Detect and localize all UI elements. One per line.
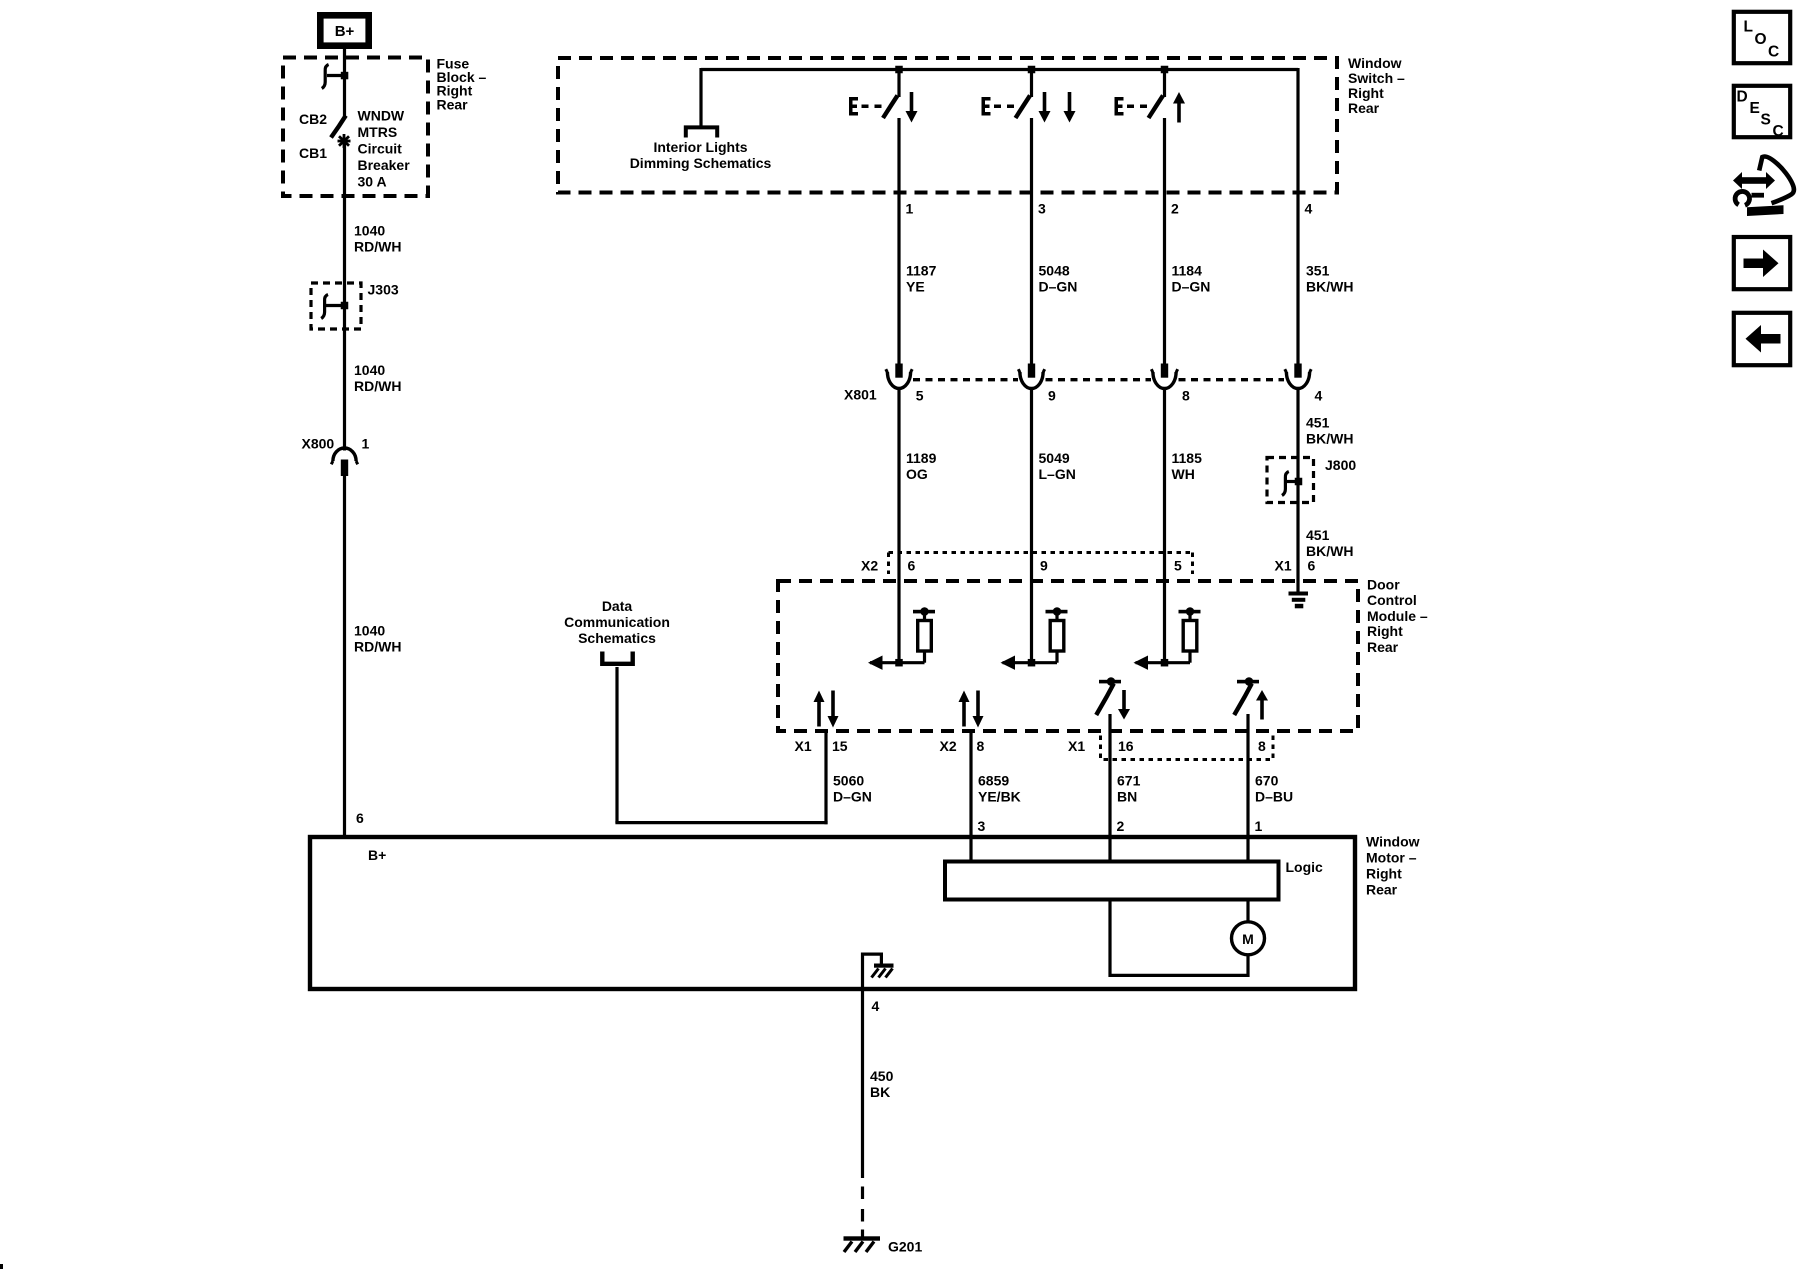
wire module switch 16 down [1108, 714, 1111, 862]
svg-text:J800: J800 [1325, 457, 1356, 473]
wire X801-8 to module [1163, 389, 1166, 665]
svg-text:5049: 5049 [1039, 450, 1070, 466]
door control module dashed box [778, 581, 1358, 731]
svg-text:X1: X1 [1068, 738, 1085, 754]
B+ power symbol [320, 15, 368, 45]
wire label 5049 L-GN [1039, 450, 1076, 482]
svg-text:Breaker: Breaker [358, 157, 411, 173]
svg-text:6859: 6859 [978, 773, 1009, 789]
connector X801 pin 8 [1151, 364, 1190, 404]
svg-text:1184: 1184 [1172, 263, 1203, 279]
motor pin labels 3 2 1 [978, 818, 1263, 834]
svg-text:Right: Right [1366, 865, 1402, 881]
svg-text:D–GN: D–GN [1172, 279, 1211, 295]
svg-text:X1: X1 [795, 738, 812, 754]
svg-text:8: 8 [977, 738, 985, 754]
splice J303 [311, 282, 399, 329]
svg-text:WNDW: WNDW [358, 107, 405, 123]
wire label 450 BK [870, 1068, 894, 1100]
svg-text:S: S [1761, 112, 1771, 129]
ground G201 [844, 1236, 923, 1254]
wire label 6859 YE/BK [978, 773, 1021, 805]
module switch down (X1-16) [1096, 677, 1130, 719]
wire label 1187 YE [906, 263, 937, 295]
window switch label [1348, 55, 1405, 116]
wire X801-5 to module [897, 389, 900, 665]
svg-text:450: 450 [870, 1068, 894, 1084]
svg-text:X801: X801 [844, 387, 877, 403]
svg-text:D–GN: D–GN [833, 789, 872, 805]
svg-text:J303: J303 [368, 282, 399, 298]
wire label 671 BN [1117, 773, 1141, 805]
svg-text:1040: 1040 [354, 622, 385, 638]
fuse block label [437, 55, 487, 112]
wire label 1040 RD/WH (1) [354, 222, 401, 254]
wire X801-4 to ground [1296, 389, 1299, 593]
wire switch pin 2 down [1163, 118, 1166, 364]
connector X800 pin 1 [302, 435, 370, 476]
svg-text:BK/WH: BK/WH [1306, 279, 1353, 295]
wire X801-9 to module [1030, 389, 1033, 665]
clamp junction in fuse block [322, 65, 348, 89]
svg-text:3: 3 [978, 818, 986, 834]
switch window up (pin 2) [1115, 70, 1186, 123]
interior lights off-page bracket [686, 127, 717, 137]
svg-text:Window: Window [1348, 55, 1402, 71]
svg-text:6: 6 [356, 810, 364, 826]
svg-text:451: 451 [1306, 414, 1330, 430]
svg-text:YE/BK: YE/BK [978, 789, 1021, 805]
svg-text:BK: BK [870, 1084, 890, 1100]
svg-text:8: 8 [1258, 738, 1266, 754]
wire X2-8 down to motor pin 3 [969, 732, 972, 863]
fuse block dashed box [283, 58, 428, 197]
svg-text:Circuit: Circuit [358, 140, 403, 156]
node bus junction 1 [895, 66, 903, 74]
svg-text:B+: B+ [335, 23, 355, 40]
wire label 351 BK/WH [1306, 263, 1353, 295]
svg-text:671: 671 [1117, 773, 1141, 789]
svg-text:6: 6 [908, 557, 916, 573]
page corner mark [0, 1264, 3, 1269]
icon schematic tools [1733, 156, 1794, 216]
svg-text:Rear: Rear [437, 96, 469, 112]
svg-text:Window: Window [1366, 833, 1420, 849]
wire label 451 BK/WH upper [1306, 414, 1353, 446]
svg-text:9: 9 [1048, 387, 1056, 403]
pin numbers under switch box [906, 200, 1313, 216]
svg-text:RD/WH: RD/WH [354, 238, 401, 254]
svg-text:Rear: Rear [1348, 100, 1380, 116]
connector X2 labels [861, 557, 1182, 573]
wire logic to motor top [1246, 900, 1249, 922]
module pin labels [795, 738, 1267, 754]
wire drop to interior lights [699, 68, 702, 126]
wire motor ground down [861, 989, 864, 1178]
svg-text:Schematics: Schematics [578, 630, 656, 646]
svg-text:8: 8 [1182, 387, 1190, 403]
connector X801 dashed line [913, 378, 1284, 381]
module switch up (X1-8) [1234, 677, 1268, 719]
connector X801 pin 5 [886, 364, 924, 404]
wire label 1040 RD/WH (3) [354, 622, 401, 654]
switch window express down (pin 3) [982, 70, 1076, 123]
svg-text:Motor –: Motor – [1366, 849, 1417, 865]
svg-text:1: 1 [1255, 818, 1263, 834]
wire label 670 D-BU [1255, 773, 1293, 805]
svg-text:Module –: Module – [1367, 608, 1428, 624]
svg-text:O: O [1755, 31, 1767, 48]
node bus junction 3 [1161, 66, 1169, 74]
svg-text:9: 9 [1040, 557, 1048, 573]
motor M [1232, 922, 1265, 955]
svg-text:2: 2 [1117, 818, 1125, 834]
bus wire in switch [701, 68, 1298, 71]
wire switch pin 4 down [1296, 68, 1299, 364]
svg-text:D–GN: D–GN [1039, 279, 1078, 295]
svg-text:B+: B+ [368, 847, 386, 863]
svg-text:1189: 1189 [906, 450, 937, 466]
wire to data communication [615, 667, 827, 823]
svg-text:YE: YE [906, 279, 925, 295]
svg-text:L: L [1744, 18, 1753, 35]
svg-text:D: D [1737, 89, 1748, 106]
svg-text:1185: 1185 [1172, 450, 1203, 466]
svg-text:2: 2 [1171, 200, 1179, 216]
svg-text:X1: X1 [1275, 557, 1292, 573]
resistor R3 (module input 5) [1134, 607, 1201, 670]
svg-text:Door: Door [1367, 576, 1400, 592]
svg-text:5048: 5048 [1039, 263, 1070, 279]
interior lights label [630, 139, 772, 171]
wire switch pin 1 down [897, 118, 900, 364]
svg-text:Dimming Schematics: Dimming Schematics [630, 155, 772, 171]
svg-text:Communication: Communication [564, 614, 670, 630]
svg-text:Right: Right [1348, 85, 1384, 101]
svg-text:1: 1 [906, 200, 914, 216]
wire label 1040 RD/WH (2) [354, 362, 401, 394]
connector X1 dotted box (pins 16/8) [1101, 736, 1274, 760]
ground in module [1289, 592, 1309, 609]
svg-text:1187: 1187 [906, 263, 937, 279]
wire B+ to circuit breaker [343, 49, 346, 117]
window motor box [310, 837, 1355, 989]
svg-text:5: 5 [1174, 557, 1182, 573]
splice J800 [1267, 457, 1356, 503]
svg-text:4: 4 [872, 998, 880, 1014]
connector X1 pin 6 labels [1275, 557, 1316, 573]
svg-text:Interior Lights: Interior Lights [653, 139, 747, 155]
resistor R1 (module input 6) [868, 607, 935, 670]
dashed wire to G201 [861, 1187, 864, 1238]
svg-text:X2: X2 [940, 738, 957, 754]
svg-text:30 A: 30 A [358, 173, 387, 189]
svg-text:MTRS: MTRS [358, 124, 398, 140]
switch window down (pin 1) [849, 70, 918, 123]
svg-text:G201: G201 [888, 1239, 922, 1255]
svg-text:Data: Data [602, 598, 633, 614]
wire X1-15 down [824, 732, 827, 825]
wire logic to motor loop left [1110, 900, 1248, 978]
svg-text:1040: 1040 [354, 222, 385, 238]
window motor label [1366, 833, 1420, 897]
svg-text:C: C [1773, 123, 1784, 140]
wire circuit breaker to X800 [343, 141, 346, 451]
svg-text:1040: 1040 [354, 362, 385, 378]
svg-text:RD/WH: RD/WH [354, 638, 401, 654]
svg-text:OG: OG [906, 466, 928, 482]
wire X800 to window motor [343, 476, 346, 839]
svg-text:C: C [1768, 43, 1779, 60]
svg-text:Logic: Logic [1286, 859, 1324, 875]
data communication off-page bracket [602, 652, 632, 664]
svg-text:6: 6 [1308, 557, 1316, 573]
icon DESC [1734, 86, 1790, 140]
svg-text:RD/WH: RD/WH [354, 378, 401, 394]
svg-text:CB1: CB1 [299, 145, 327, 161]
svg-text:M: M [1242, 931, 1254, 947]
logic block U1 [945, 859, 1323, 900]
connector X801 pin 4 [1285, 364, 1323, 404]
svg-text:1: 1 [362, 435, 370, 451]
wire label 5048 D-GN [1039, 263, 1078, 295]
svg-text:E: E [1750, 100, 1760, 117]
svg-text:5060: 5060 [833, 773, 864, 789]
wire motor bottom [1246, 955, 1249, 977]
svg-text:Switch –: Switch – [1348, 70, 1405, 86]
icon back arrow [1734, 313, 1790, 365]
wire label 1185 WH [1172, 450, 1203, 482]
module output up/down arrows (X2-8) [959, 691, 984, 728]
svg-text:Rear: Rear [1367, 639, 1399, 655]
connector X2 dotted line [889, 553, 1193, 575]
svg-text:670: 670 [1255, 773, 1279, 789]
svg-text:CB2: CB2 [299, 111, 327, 127]
resistor R2 (module input 9) [1001, 607, 1068, 670]
svg-text:X2: X2 [861, 557, 878, 573]
node bus junction 2 [1028, 66, 1036, 74]
svg-text:4: 4 [1305, 200, 1313, 216]
svg-text:L–GN: L–GN [1039, 466, 1076, 482]
svg-text:BK/WH: BK/WH [1306, 430, 1353, 446]
wire label 1184 D-GN [1172, 263, 1211, 295]
svg-text:Rear: Rear [1366, 881, 1398, 897]
svg-text:D–BU: D–BU [1255, 789, 1293, 805]
svg-text:15: 15 [832, 738, 848, 754]
wire module switch 8 down [1246, 714, 1249, 862]
svg-text:X800: X800 [302, 435, 335, 451]
svg-text:4: 4 [1315, 387, 1323, 403]
icon LOC [1734, 12, 1790, 63]
connector X801 pin 9 [1018, 364, 1056, 404]
svg-text:BN: BN [1117, 789, 1137, 805]
data communication label [564, 598, 670, 646]
door control module label [1367, 576, 1428, 655]
wire label 1189 OG [906, 450, 937, 482]
svg-text:351: 351 [1306, 263, 1330, 279]
icon next arrow [1734, 237, 1790, 289]
svg-text:5: 5 [916, 387, 924, 403]
circuit breaker value label [358, 107, 411, 189]
window switch dashed box [558, 58, 1337, 193]
svg-text:451: 451 [1306, 527, 1330, 543]
svg-text:3: 3 [1038, 200, 1046, 216]
chassis ground in motor box [861, 953, 894, 990]
svg-text:Control: Control [1367, 592, 1417, 608]
svg-text:WH: WH [1172, 466, 1195, 482]
wire label 5060 D-GN [833, 773, 872, 805]
wire label 451 BK/WH lower [1306, 527, 1353, 559]
svg-text:Right: Right [1367, 623, 1403, 639]
module output up/down arrows (X1-15) [814, 691, 839, 728]
svg-text:16: 16 [1118, 738, 1134, 754]
wire switch pin 3 down [1030, 118, 1033, 364]
circuit breaker CB1/CB2 [299, 111, 351, 161]
